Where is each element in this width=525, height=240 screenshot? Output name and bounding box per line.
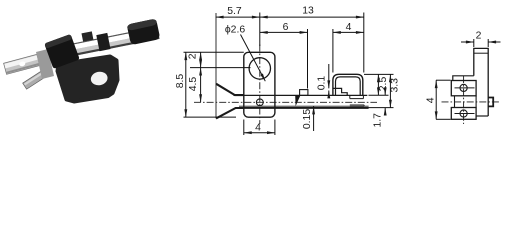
svg-text:1.7: 1.7 (372, 113, 383, 128)
dim 4 (clip) (333, 31, 364, 33)
holder body (244, 52, 275, 117)
dim 2 (chain top) (200, 52, 202, 67)
right black block (127, 18, 161, 45)
dim 2 outside arrows (461, 41, 474, 43)
lower screw (460, 110, 467, 117)
phi2.6 leader (241, 35, 266, 82)
right side ext lines (364, 73, 394, 75)
left horizontal ext lines (184, 51, 244, 53)
hole phi2.6 (249, 58, 270, 79)
spring clip outer (333, 74, 363, 95)
bend shadow between lug and block (36, 49, 54, 79)
dim 6 (260, 31, 308, 33)
tab left edge / 5.7 extension line (215, 13, 217, 118)
dim 4.5 (chain bottom) (200, 68, 202, 103)
dim 13 (260, 16, 364, 18)
svg-text:2.5: 2.5 (378, 77, 389, 92)
horizontal centerline (442, 101, 501, 103)
lower bent tab (thick diagonal) (216, 108, 244, 118)
upper bent tab (thick diagonal) (216, 84, 244, 95)
flag bend diagonal wedge (295, 95, 300, 106)
svg-text:4: 4 (426, 97, 437, 103)
svg-text:5.7: 5.7 (227, 6, 242, 17)
terminal lug with hole (4, 54, 40, 74)
dim 8.5 (185, 52, 187, 117)
svg-text:3.3: 3.3 (390, 78, 401, 93)
strip top edge (234, 94, 368, 96)
dim 0.1 (328, 64, 330, 88)
dim 1.7 (outside arrows) (384, 89, 386, 96)
svg-text:8.5: 8.5 (175, 74, 186, 89)
middle black block (44, 34, 80, 69)
dims right view (436, 39, 501, 119)
strip bottom thick edge (238, 107, 369, 109)
dim 4 (435, 80, 437, 119)
ext line x=363.8 (13/4 right) (363, 13, 365, 73)
svg-text:0.1: 0.1 (317, 76, 328, 91)
ext line body centerline top (259, 13, 261, 47)
vertical centerline (259, 45, 261, 125)
vertical centerline through screws (463, 76, 465, 124)
ext line x=307.5 (6 right) (307, 29, 309, 89)
plate bottom (476, 115, 488, 117)
right protrusion (488, 98, 493, 107)
dim 2.5 (377, 74, 379, 95)
contact flag piece on rail (81, 31, 93, 41)
dim 4 under body (244, 120, 275, 136)
dim 0.15 leader (313, 107, 315, 132)
svg-text:4: 4 (346, 22, 352, 33)
neck between blocks (455, 96, 477, 108)
dimension texts, middle view (175, 6, 482, 134)
svg-text:0.15: 0.15 (302, 109, 313, 129)
svg-text:4: 4 (255, 123, 261, 134)
svg-text:2: 2 (188, 53, 199, 59)
shelf step (453, 76, 474, 81)
svg-text:13: 13 (302, 6, 314, 17)
spring clip inner (336, 77, 361, 96)
dim 3.3 (389, 74, 391, 107)
under-tab beneath strip (350, 105, 364, 106)
small pivot hole (256, 99, 263, 106)
black bracket with hole (58, 57, 118, 102)
lower terminal tab (23, 69, 49, 89)
svg-text:6: 6 (283, 22, 289, 33)
upper screw (460, 84, 467, 91)
vertical plate (474, 48, 488, 116)
clip bottom-right foot below strip top (350, 95, 364, 98)
svg-text:2: 2 (476, 30, 482, 41)
horizontal centerline (194, 101, 377, 103)
clip tucked end (bottom-left notch) (333, 88, 347, 95)
ext lines for 4 (436, 79, 451, 81)
lower block (451, 108, 476, 120)
svg-text:ϕ2.6: ϕ2.6 (225, 24, 245, 35)
svg-text:4.5: 4.5 (188, 77, 199, 92)
upper block (451, 81, 476, 96)
small black clip on rail (96, 33, 110, 51)
metal rail (59, 27, 160, 59)
thin leaf line (239, 105, 369, 107)
ext line x=332.9 (4 left) (332, 29, 334, 73)
dim 5.7 (216, 16, 260, 18)
ext lines for 2 (473, 39, 475, 47)
contact flag box (300, 90, 308, 96)
